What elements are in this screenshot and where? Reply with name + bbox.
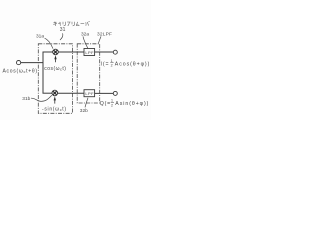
LPF 32b box (84, 90, 95, 97)
LPF section box 32 (dash-dot) (77, 44, 100, 103)
leader 31 (60, 33, 63, 40)
input terminal (17, 61, 21, 65)
leader 31a (45, 38, 53, 48)
multiplier 31a (53, 49, 59, 55)
リ (63, 22, 65, 26)
leader 32LPF (98, 36, 101, 43)
svg-text:LPF: LPF (85, 50, 94, 55)
svg-text:1: 1 (111, 59, 113, 63)
svg-text:I(=: I(= (101, 61, 110, 67)
leader 31b (31, 95, 52, 101)
svg-text:32LPF: 32LPF (97, 32, 112, 38)
svg-text:31: 31 (60, 27, 66, 33)
wire: top multiplier to LPF (58, 51, 84, 53)
svg-text:32a: 32a (81, 32, 89, 38)
svg-text:32b: 32b (80, 108, 88, 114)
svg-text:Q(=: Q(= (100, 101, 111, 107)
wire: bottom multiplier to LPF (58, 92, 84, 94)
svg-text:2: 2 (111, 104, 113, 108)
wire: branch vertical (42, 52, 44, 93)
svg-text:Acos(ωct+θ): Acos(ωct+θ) (3, 68, 38, 74)
svg-text:cos(ωct): cos(ωct) (44, 66, 66, 72)
ム (76, 22, 79, 26)
carrier arrow into 31a (54, 55, 56, 62)
svg-text:-sin(ωct): -sin(ωct) (42, 106, 67, 112)
Q output terminal (113, 91, 117, 95)
ー (81, 23, 85, 25)
svg-text:2: 2 (111, 64, 113, 68)
I output terminal (113, 50, 117, 54)
wire: input horizontal (21, 62, 43, 64)
ャ (58, 22, 61, 26)
wire: to top multiplier (43, 51, 53, 53)
label キャリアリムーバ (drawn strokes) (53, 21, 90, 26)
LPF 32a box (84, 49, 95, 56)
バ (86, 21, 90, 26)
background (0, 0, 151, 120)
I output formula (101, 59, 151, 68)
carrier remover box 31 (dash-dot) (38, 44, 72, 114)
wire: to bottom multiplier (43, 92, 53, 94)
svg-text:LPF: LPF (85, 91, 94, 96)
Q output formula (100, 99, 150, 108)
multiplier 31b (52, 90, 58, 96)
svg-text:Acos(θ+φ)): Acos(θ+φ)) (115, 61, 151, 67)
キ (53, 22, 57, 27)
leader 32a (83, 36, 88, 48)
leader 32b (85, 98, 88, 108)
wire: top LPF to output (95, 51, 114, 53)
svg-text:1: 1 (111, 99, 113, 103)
svg-text:31b: 31b (22, 96, 30, 102)
wire: bottom LPF to output (95, 92, 114, 94)
リ (72, 22, 74, 26)
carrier arrow into 31b (54, 96, 56, 103)
svg-text:Asin(θ+φ)): Asin(θ+φ)) (115, 101, 149, 107)
svg-text:31a: 31a (36, 34, 44, 40)
ア (67, 22, 70, 26)
